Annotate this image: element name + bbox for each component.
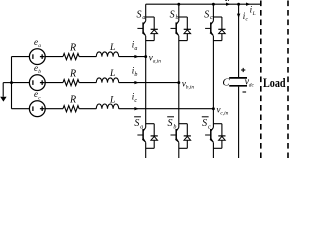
IGBT switch S̄_b [171,128,179,143]
current arrow i_c [132,92,139,111]
label v_dc [245,76,255,88]
node v_a,in [144,53,161,65]
label S_c [204,9,213,20]
svg-text:C: C [222,77,230,89]
current arrow i_b [132,66,139,85]
svg-text:c,in: c,in [220,110,228,116]
freewheeling diode of S_a [146,17,158,41]
svg-text:L: L [109,43,115,53]
wire: leg a vertical [145,4,147,158]
wire: source c to resistor [45,108,63,110]
capacitor C [229,4,247,158]
IGBT switch S̄_a [137,128,145,143]
IGBT switch S_a [137,21,145,36]
wire: resistor to inductor (phase c) [79,108,96,110]
resistor R (phase c) [63,94,79,111]
voltage source e_c [29,89,45,117]
node: neutral junction [10,81,13,84]
svg-text:a: a [142,15,145,21]
node v_b,in [177,79,194,91]
svg-text:b,in: b,in [186,84,195,90]
inductor L (phase a) [96,43,118,56]
ground [0,83,11,102]
svg-text:S: S [168,118,173,129]
svg-text:a: a [140,124,143,130]
svg-text:a,in: a,in [153,58,162,64]
svg-text:b: b [134,72,137,78]
node: leg c top [212,3,215,6]
left neutral bus wire [11,57,13,109]
freewheeling diode of S̄_a [146,124,158,149]
wire: leg c vertical [212,4,214,158]
wire: source a left lead [12,56,30,58]
node: leg b top [177,3,180,6]
IGBT switch S_c [205,21,213,36]
svg-text:b: b [173,124,176,130]
inductor L (phase b) [96,69,118,82]
wire: source c left lead [12,108,30,110]
top DC bus wire [146,3,261,5]
freewheeling diode of S̄_c [213,124,225,149]
wire: resistor to inductor (phase b) [79,82,96,84]
wire: inductor to bridge leg (phase c) [119,108,214,110]
current arrow on dc bus (label cropped) [225,0,230,6]
label S_b [170,9,179,20]
resistor R (phase b) [63,68,79,85]
svg-text:a: a [134,46,137,52]
voltage source e_b [29,63,45,91]
freewheeling diode of S_b [179,17,191,41]
svg-text:Load: Load [263,76,286,90]
current arrow i_c (capacitor) [237,11,249,23]
wire: inductor to bridge leg (phase b) [119,82,179,84]
svg-text:c: c [134,98,137,104]
svg-text:S: S [204,9,209,20]
current arrow i_L [246,3,256,17]
svg-text:c: c [208,124,211,130]
freewheeling diode of S_c [213,17,225,41]
svg-text:a: a [38,43,41,49]
wire: source b to resistor [45,82,63,84]
wire: source b left lead [12,82,30,84]
load box dashed left edge [260,1,262,159]
label S-bar_b [167,117,176,131]
current arrow i_a [132,40,139,59]
svg-text:b: b [38,69,41,75]
label + (dc link) [241,68,245,72]
svg-text:S: S [137,9,142,20]
svg-text:R: R [69,68,76,79]
svg-text:R: R [69,94,76,105]
svg-text:S: S [170,9,175,20]
svg-text:L: L [109,95,115,105]
node: capacitor top [237,3,240,6]
node v_c,in [212,105,229,117]
svg-text:L: L [252,11,256,17]
resistor R (phase a) [63,42,79,59]
svg-text:L: L [109,69,115,79]
svg-text:c: c [210,15,213,21]
IGBT switch S_b [171,21,179,36]
label S_a [137,9,146,20]
svg-text:R: R [69,42,76,53]
wire: leg b vertical [178,4,180,158]
svg-text:S: S [202,118,207,129]
wire: inductor to bridge leg (phase a) [119,56,146,58]
label S-bar_a [134,117,143,131]
svg-text:dc: dc [249,82,255,88]
freewheeling diode of S̄_b [179,124,191,149]
inductor L (phase c) [96,95,118,108]
IGBT switch S̄_c [205,128,213,143]
svg-text:b: b [176,15,179,21]
wire: resistor to inductor (phase a) [79,56,96,58]
load box dashed right edge [287,1,289,159]
svg-text:S: S [134,118,139,129]
label - (dc link) [243,91,247,93]
voltage source e_a [29,37,45,65]
label S-bar_c [202,117,211,131]
wire: source a to resistor [45,56,63,58]
